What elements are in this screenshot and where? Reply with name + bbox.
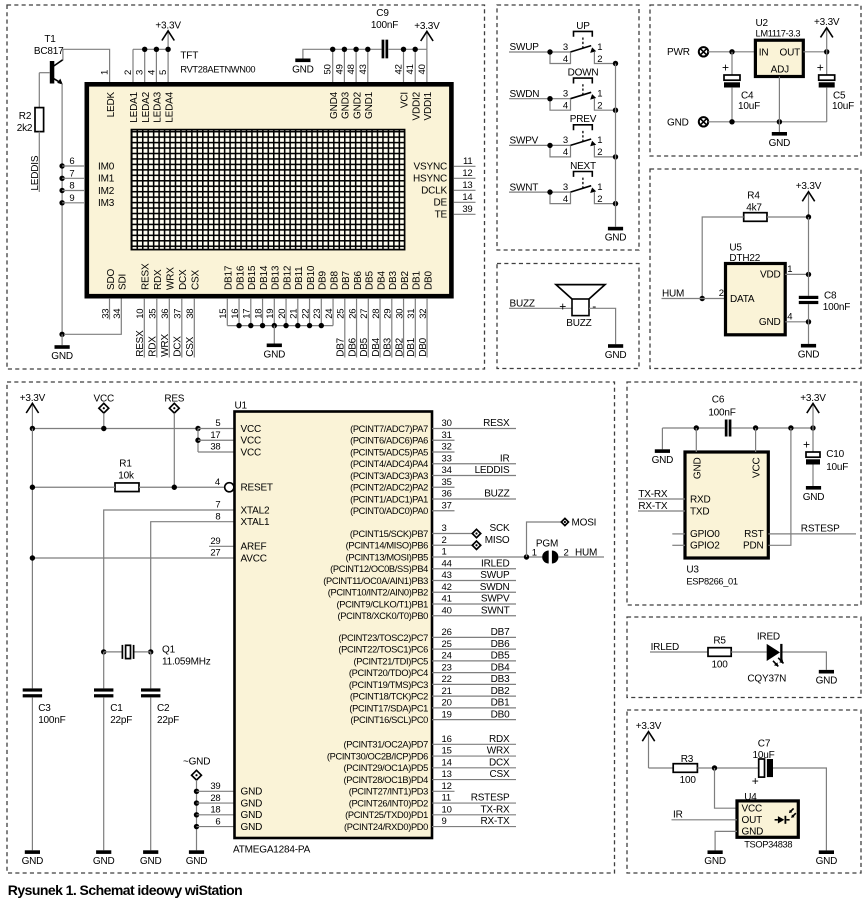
wifi module U3 ESP8266_01 [685,452,768,587]
svg-text:RXD: RXD [690,494,711,505]
section box IR receiver [627,710,861,873]
svg-text:DB1: DB1 [491,698,510,709]
svg-text:Q1: Q1 [162,645,176,656]
TFT inside labels bottom RESX RDX WRX DCX CSX [141,263,202,290]
pin 3 SCK terminal [432,523,510,538]
crystal Q1 11.059MHz [101,645,211,668]
svg-text:DB2: DB2 [394,337,405,356]
svg-text:C2: C2 [157,703,170,714]
svg-text:GND1: GND1 [364,91,375,119]
net label LEDDIS [30,132,41,192]
svg-text:GND: GND [667,118,689,129]
svg-text:1: 1 [597,135,602,146]
wire RESET net [30,485,225,490]
svg-text:GND: GND [816,856,838,867]
wire PWR to U2 IN [708,49,755,54]
svg-text:39: 39 [210,781,220,792]
svg-text:12: 12 [442,781,452,792]
svg-text:2: 2 [442,535,447,546]
svg-text:7: 7 [215,500,220,511]
power +3.3V DTH22 [796,181,822,217]
svg-text:MOSI: MOSI [572,517,597,528]
svg-text:(PCINT20/TDO)PC4: (PCINT20/TDO)PC4 [349,668,428,678]
svg-text:DB16: DB16 [235,265,246,290]
svg-text:CSX: CSX [490,769,510,780]
resistor R1 10k [115,458,139,491]
wire to R3 [649,767,674,769]
wire R5 to IRED [731,651,767,653]
svg-text:15: 15 [218,309,229,319]
svg-text:DB11: DB11 [294,266,305,290]
power +3.3V output [814,17,840,52]
svg-text:ATMEGA1284-PA: ATMEGA1284-PA [233,845,311,856]
pin numbers 2-5 LEDA [123,70,169,75]
svg-text:DB7: DB7 [491,627,510,638]
net label BUZZ [509,298,572,309]
svg-text:25: 25 [336,309,347,319]
svg-text:LEDA2: LEDA2 [141,91,152,122]
svg-text:(PCINT12/OC0B/SS)PB4: (PCINT12/OC0B/SS)PB4 [330,564,428,574]
svg-text:+3.3V: +3.3V [800,393,826,404]
svg-text:16: 16 [442,734,452,745]
svg-text:VCC: VCC [241,436,262,447]
ground U4 [704,850,726,867]
svg-text:DB10: DB10 [306,265,317,290]
svg-text:3: 3 [563,42,568,53]
svg-text:22: 22 [442,674,452,685]
wire IRED to ground [783,652,827,670]
svg-text:~GND: ~GND [183,756,210,767]
wire U3 GND pin [695,428,697,452]
svg-text:(PCINT17/SDA)PC1: (PCINT17/SDA)PC1 [349,703,428,713]
TFT inside labels right VSYNC..TE [413,162,448,221]
svg-text:+3.3V: +3.3V [20,393,46,404]
svg-text:42: 42 [394,64,405,74]
section box humidity sensor [650,169,861,369]
svg-text:10uF: 10uF [738,101,760,112]
wire PDN to +3.3V [768,428,791,545]
svg-text:14: 14 [442,757,452,768]
wire C7 to ground [773,768,826,850]
pin 24 net DB5 [432,651,516,662]
svg-text:11.059MHz: 11.059MHz [162,657,211,668]
svg-text:27: 27 [359,309,370,319]
pin 29 AREF stub [209,536,235,547]
svg-text:(PCINT21/TDI)PC5: (PCINT21/TDI)PC5 [354,656,429,666]
svg-text:(PCINT3/ADC3)PA3: (PCINT3/ADC3)PA3 [350,471,428,481]
svg-text:(PCINT1/ADC1)PA1: (PCINT1/ADC1)PA1 [350,494,428,504]
svg-text:DCLK: DCLK [421,186,447,197]
capacitor C1 22pF [94,652,132,850]
wire +3.3V vertical [31,429,33,689]
svg-text:RX-TX: RX-TX [480,816,510,827]
switch SWUP (UP) [550,21,618,66]
svg-text:HSYNC: HSYNC [413,174,447,185]
wire GND4-GND1 pin risers [330,47,370,82]
svg-text:SWPV: SWPV [481,594,510,605]
svg-text:BUZZ: BUZZ [484,489,509,500]
svg-text:(PCINT27/INT1)PD3: (PCINT27/INT1)PD3 [349,787,428,797]
svg-text:43: 43 [358,64,369,74]
ground TFT top GND4-GND1 [292,49,382,75]
section box power supply [650,5,861,156]
svg-text:GND: GND [692,458,703,480]
svg-text:IM2: IM2 [98,186,115,197]
ground C3 [22,850,44,867]
svg-text:8: 8 [69,181,74,192]
svg-text:37: 37 [173,309,184,319]
svg-text:IR: IR [500,453,510,464]
svg-text:T1: T1 [44,34,56,45]
svg-text:50: 50 [323,64,334,74]
svg-text:C3: C3 [38,703,51,714]
svg-text:13: 13 [442,769,452,780]
svg-text:30: 30 [394,309,405,319]
svg-text:42: 42 [442,582,452,593]
pin 10 net TX-RX [432,804,516,815]
svg-text:37: 37 [442,500,452,511]
wire ground rail U2 [708,77,827,125]
U1 inside labels right [323,424,428,832]
svg-text:GND2: GND2 [352,91,363,119]
wire SDI to ground bus [64,298,121,334]
svg-text:16: 16 [230,309,241,319]
svg-text:(PCINT15/SCK)PB7: (PCINT15/SCK)PB7 [350,529,428,539]
svg-text:(PCINT29/OC1A)PD5: (PCINT29/OC1A)PD5 [344,763,429,773]
svg-text:WRX: WRX [160,334,171,357]
svg-text:DB2: DB2 [400,271,411,290]
svg-text:27: 27 [210,548,220,559]
svg-text:RSTESP: RSTESP [801,524,840,535]
TFT inside labels left IM0-IM3 [98,161,115,209]
section box switches [497,5,639,250]
capacitor C2 22pF [141,652,179,850]
svg-text:1: 1 [597,89,602,100]
svg-text:28: 28 [371,309,382,319]
svg-text:+3.3V: +3.3V [414,21,440,32]
svg-text:(PCINT14/MISO)PB6: (PCINT14/MISO)PB6 [346,541,429,551]
svg-text:GND: GND [769,138,791,149]
pin 2 MISO terminal [432,535,510,550]
pin 43 net SWUP [432,570,516,581]
wire base of T1 [39,72,50,74]
pin numbers 7 8 [215,500,220,523]
svg-text:+: + [722,61,729,75]
svg-text:29: 29 [210,536,220,547]
svg-text:RVT28AETNWN00: RVT28AETNWN00 [180,65,255,75]
wire AVCC to +3.3V [30,548,235,561]
svg-text:DCX: DCX [489,757,510,768]
svg-text:1: 1 [100,70,111,75]
pin 4 RESET bubble [215,477,234,492]
svg-text:22pF: 22pF [110,715,132,726]
svg-text:TFT: TFT [180,51,198,62]
svg-text:DOWN: DOWN [568,68,599,79]
svg-text:38: 38 [210,442,220,453]
svg-text:RESET: RESET [241,483,273,494]
svg-text:100nF: 100nF [371,20,398,31]
svg-text:1: 1 [597,182,602,193]
buzzer BUZZ speaker [556,285,605,329]
ground C7 [816,850,838,867]
svg-text:3: 3 [135,70,146,75]
svg-text:GND3: GND3 [341,91,352,119]
svg-text:DB7: DB7 [341,271,352,290]
capacitor C7 10uF [752,738,775,788]
svg-text:36: 36 [160,309,171,319]
svg-text:12: 12 [462,168,472,179]
svg-text:LEDDIS: LEDDIS [30,155,41,190]
svg-text:48: 48 [346,64,357,74]
svg-text:R1: R1 [119,458,132,469]
svg-text:DB0: DB0 [418,337,429,356]
pin 37 stub [432,500,455,511]
svg-text:GND4: GND4 [329,91,340,119]
ground buzzer [605,344,627,361]
wire buzzer to ground [589,308,616,344]
svg-text:IR: IR [673,810,683,821]
svg-text:4: 4 [787,312,792,323]
svg-text:41: 41 [442,594,452,605]
TFT control pins RESX RDX WRX DCX CSX [135,298,196,357]
connector PGM [532,538,569,563]
svg-text:-: - [592,299,596,313]
svg-text:AVCC: AVCC [241,553,267,564]
svg-text:22pF: 22pF [157,715,179,726]
svg-text:C8: C8 [824,290,837,301]
svg-text:CQY37N: CQY37N [747,674,786,685]
terminal ~GND [183,756,210,850]
svg-text:VCI: VCI [400,92,411,108]
svg-text:+3.3V: +3.3V [155,20,181,31]
svg-text:GND: GND [241,822,263,833]
svg-text:17: 17 [242,309,253,319]
svg-text:5: 5 [215,418,220,429]
resistor R4 4k7 [744,190,767,221]
svg-text:SWUP: SWUP [480,570,510,581]
svg-text:3: 3 [563,89,568,100]
svg-text:25: 25 [442,639,452,650]
svg-text:40: 40 [417,64,428,74]
svg-text:DB4: DB4 [371,337,382,356]
svg-text:29: 29 [383,309,394,319]
svg-text:GND: GND [816,676,838,687]
svg-text:GND: GND [652,455,674,466]
svg-text:U5: U5 [729,243,742,254]
svg-text:(PCINT24/RXD0)PD0: (PCINT24/RXD0)PD0 [344,822,428,832]
svg-text:GND: GND [93,856,115,867]
svg-text:RESX: RESX [135,330,146,357]
svg-text:10uF: 10uF [832,101,854,112]
microcontroller U1 ATMEGA1284-PA [233,400,432,855]
net label HUM [662,289,726,300]
svg-text:DB9: DB9 [318,271,329,290]
switch SWPV (PREV) [550,114,618,159]
svg-text:2k2: 2k2 [17,123,33,134]
svg-text:GND: GND [241,787,263,798]
capacitor C6 100nF [708,394,735,436]
svg-text:OUT: OUT [742,815,763,826]
ground C1 [93,850,115,867]
pin 1 VDD wire [785,217,811,277]
svg-text:10: 10 [442,804,452,815]
svg-text:DE: DE [434,198,448,209]
svg-text:49: 49 [334,64,345,74]
svg-text:DB5: DB5 [359,337,370,356]
svg-text:10k: 10k [118,470,135,481]
wire PGM pin2 HUM [558,547,604,558]
pin 1 MOSI/PGM wire [432,547,542,560]
svg-text:40: 40 [442,605,452,616]
ground C10 [803,486,825,503]
svg-text:GND: GND [803,492,825,503]
svg-text:C1: C1 [110,703,123,714]
svg-text:LEDK: LEDK [106,91,117,117]
net label SWUP [509,42,570,55]
svg-text:(PCINT11/OC0A/AIN1)PB3: (PCINT11/OC0A/AIN1)PB3 [323,576,428,586]
pin numbers 50 49 48 43 [323,64,369,74]
net label SWDN [509,89,570,102]
ground IRED [816,670,838,687]
svg-text:6: 6 [215,816,220,827]
svg-text:XTAL2: XTAL2 [241,505,270,516]
svg-text:DB3: DB3 [383,337,394,356]
svg-text:1: 1 [597,42,602,53]
svg-text:(PCINT8/XCK0/T0)PB0: (PCINT8/XCK0/T0)PB0 [338,611,429,621]
wire RST / net label RSTESP [768,524,856,535]
svg-text:+3.3V: +3.3V [796,181,822,192]
svg-text:DB14: DB14 [259,265,270,290]
TFT inside labels bottom DB17-DB8 [224,265,341,290]
svg-text:DB1: DB1 [406,337,417,356]
TFT inside labels top [106,91,434,122]
svg-text:19: 19 [265,309,276,319]
svg-text:21: 21 [289,309,300,319]
svg-text:23: 23 [442,662,452,673]
svg-text:(PCINT28/OC1B)PD4: (PCINT28/OC1B)PD4 [344,775,429,785]
pin 44 net IRLED [432,558,516,569]
section box wifi module [627,382,861,605]
net label SWNT [509,182,570,195]
svg-text:IN: IN [759,47,769,58]
svg-text:OUT: OUT [779,47,800,58]
svg-text:TE: TE [435,210,448,221]
svg-text:VCC: VCC [752,458,763,479]
pin 26 net DB7 [432,627,516,638]
svg-text:RESX: RESX [141,263,152,290]
wire R2 vertical / LEDDIS net [38,73,40,108]
svg-text:44: 44 [442,558,452,569]
wire GND pins 39 28 18 6 [194,781,235,829]
svg-text:41: 41 [405,64,416,74]
ground ESP rail [652,428,674,466]
TFT display module RVT28AETNWN00 [87,51,452,297]
svg-text:GND: GND [51,351,73,362]
svg-text:24: 24 [324,309,335,319]
svg-text:6: 6 [69,156,74,167]
svg-text:PWR: PWR [667,47,690,58]
svg-text:SDI: SDI [118,274,129,290]
section box buzzer [497,264,639,369]
svg-text:WRX: WRX [166,267,177,290]
pin 25 net DB6 [432,639,516,650]
svg-text:(PCINT30/OC2B/ICP)PD6: (PCINT30/OC2B/ICP)PD6 [327,751,428,761]
power +3.3V main [20,393,46,429]
net labels RESX RDX WRX DCX CSX [135,330,196,357]
svg-text:(PCINT25/TXD0)PD1: (PCINT25/TXD0)PD1 [345,810,428,820]
pin 34 net LEDDIS [432,465,516,476]
svg-text:DB13: DB13 [271,265,282,290]
pin GPIO0 stub [672,533,685,535]
pin numbers 42 41 40 [394,64,428,74]
pin 14 net DCX [432,757,516,768]
section box microcontroller [7,382,615,873]
svg-text:C7: C7 [758,738,771,749]
svg-text:C10: C10 [826,449,844,460]
ground DTH22 [798,322,820,361]
svg-text:DB6: DB6 [353,271,364,290]
wire XTAL1 [151,522,235,652]
pin 31 stub [432,430,455,441]
power +3.3V TSOP [636,721,662,768]
svg-text:31: 31 [442,430,452,441]
power +3.3V ESP [800,393,826,428]
svg-text:IRLED: IRLED [481,558,509,569]
svg-text:SDO: SDO [106,269,117,290]
svg-text:DB17: DB17 [224,265,235,290]
svg-text:GPIO0: GPIO0 [690,529,720,540]
svg-text:19: 19 [442,709,452,720]
wire R4 to +3.3V [767,214,811,219]
svg-text:LEDDIS: LEDDIS [475,465,510,476]
resistor R3 100 [673,754,697,786]
svg-text:GND: GND [292,64,314,75]
ground DB bus [263,326,285,361]
svg-text:LM1117-3.3: LM1117-3.3 [756,28,801,38]
svg-text:SCK: SCK [490,523,510,534]
TFT data pins DB17-DB8 (15-24) [218,298,335,325]
svg-text:100: 100 [712,659,729,670]
svg-text:DB0: DB0 [423,271,434,290]
svg-text:DATA: DATA [730,294,755,305]
svg-text:GND: GND [186,856,208,867]
svg-text:MISO: MISO [485,535,510,546]
svg-text:VDDI2: VDDI2 [411,91,422,120]
svg-text:VDD: VDD [760,270,781,281]
svg-text:IM1: IM1 [98,174,115,185]
svg-text:BC817: BC817 [34,46,64,57]
svg-text:R4: R4 [747,190,760,201]
pin 16 net RDX [432,734,516,745]
svg-text:UP: UP [576,21,590,32]
svg-text:+3.3V: +3.3V [636,721,662,732]
svg-text:(PCINT9/CLKO/T1)PB1: (PCINT9/CLKO/T1)PB1 [336,599,428,609]
svg-text:20: 20 [277,309,288,319]
svg-text:U1: U1 [235,400,248,411]
svg-text:(PCINT4/ADC4)PA4: (PCINT4/ADC4)PA4 [350,459,428,469]
pin 35 stub [432,477,455,488]
wire R3 to C7 and U4 [697,765,758,808]
wire emitter / IM ground bus [59,84,64,337]
pin 20 net DB1 [432,698,516,709]
svg-text:AREF: AREF [241,542,267,553]
svg-text:32: 32 [418,309,429,319]
pin 4 GND wire [785,312,811,325]
wire U3 VCC pin [755,428,757,452]
svg-text:DB6: DB6 [347,337,358,356]
pin 22 net DB3 [432,674,516,685]
svg-text:+: + [752,774,759,788]
